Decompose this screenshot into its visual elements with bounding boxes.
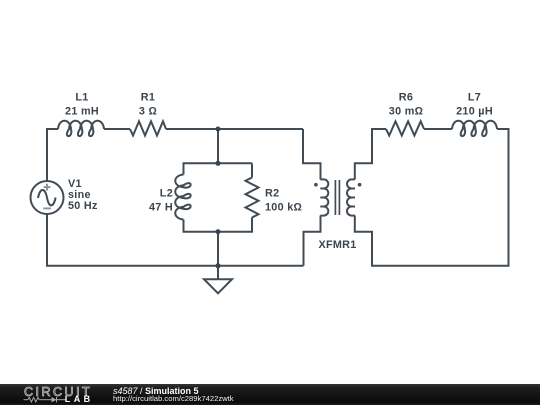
svg-text:50 Hz: 50 Hz (68, 200, 98, 212)
inductor L2 (175, 175, 190, 220)
logo schematic underline (resistor + diode) (24, 397, 67, 402)
ground (204, 266, 232, 294)
svg-text:210 µH: 210 µH (456, 106, 493, 118)
XFMR1 core lines (334, 180, 336, 215)
node D junction dot (216, 263, 221, 268)
svg-text:L2: L2 (160, 188, 173, 200)
XFMR1 secondary winding (347, 179, 355, 215)
XFMR1 primary winding (320, 179, 328, 215)
footer url text (113, 395, 234, 403)
wire R2 top lead (251, 163, 253, 177)
wire ground drop (217, 232, 219, 266)
footer bar (0, 384, 540, 405)
node C junction dot (216, 229, 221, 234)
inductor L1 (58, 121, 104, 136)
CircuitLab logo (0, 384, 110, 405)
wire branch top rail (184, 163, 253, 174)
resistor R6 (386, 121, 424, 135)
wire V1 bottom (47, 214, 304, 266)
wire branch drop (217, 129, 219, 163)
transformer XFMR1 (314, 179, 361, 215)
node B junction dot (216, 161, 221, 166)
svg-text:100 kΩ: 100 kΩ (265, 202, 302, 214)
wire L2 bottom (184, 220, 219, 232)
wire L1 to R1 (104, 128, 130, 130)
svg-text:L1: L1 (75, 92, 88, 104)
svg-text:XFMR1: XFMR1 (318, 239, 356, 251)
wire R2 bottom (218, 218, 252, 232)
svg-text:R6: R6 (399, 92, 413, 104)
resistor R1 (130, 121, 166, 135)
node A junction dot (216, 127, 221, 132)
svg-text:21 mH: 21 mH (65, 106, 99, 118)
wire R1 to primary top (166, 128, 303, 130)
XFMR1 secondary phase dot (358, 183, 362, 187)
svg-text:3 Ω: 3 Ω (139, 106, 157, 118)
footer title text (113, 387, 199, 396)
wire top-left rail (47, 129, 58, 181)
svg-text:47 H: 47 H (149, 202, 173, 214)
wire secondary top lead (355, 129, 386, 180)
svg-text:R2: R2 (265, 188, 279, 200)
svg-text:30 mΩ: 30 mΩ (389, 106, 423, 118)
wire primary top lead (303, 129, 321, 180)
svg-text:LAB: LAB (65, 394, 94, 404)
wire secondary right (355, 129, 509, 266)
wire primary bottom lead (304, 216, 321, 266)
svg-text:L7: L7 (468, 92, 481, 104)
wire R6 to L7 (424, 128, 452, 130)
svg-text:R1: R1 (141, 92, 155, 104)
inductor L7 (452, 121, 497, 136)
voltage source V1 (31, 181, 64, 214)
XFMR1 primary phase dot (314, 183, 318, 187)
resistor R2 (246, 178, 259, 218)
